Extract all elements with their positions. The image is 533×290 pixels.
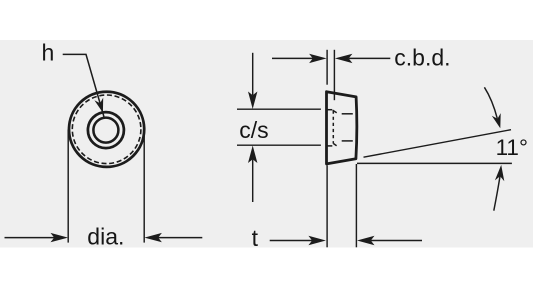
arrowhead arc lower (495, 165, 504, 181)
hole bore circle (93, 118, 118, 143)
arrowhead dia right (144, 233, 162, 242)
dimension line t left (270, 240, 313, 242)
arrowhead h leader (94, 98, 103, 113)
svg-text:h: h (42, 39, 55, 65)
hidden bore bottom dash (342, 140, 353, 142)
extension line c/s top (237, 108, 321, 110)
extension line dia right (143, 130, 145, 243)
extension line cbd left (326, 50, 328, 85)
arrowhead c/s bottom (248, 146, 257, 164)
hole countersink circle (88, 112, 124, 148)
svg-text:c/s: c/s (239, 117, 268, 143)
arrowhead dia left (51, 233, 69, 242)
11 deg slanted line (364, 130, 512, 158)
arrowhead c/s top (248, 92, 257, 110)
dimension line dia left (5, 237, 56, 239)
hidden bore centerline vertical dashed (332, 111, 334, 144)
hidden countersink dash top-left (327, 109, 332, 111)
dimension line cbd left (272, 57, 313, 59)
drawing background panel (0, 40, 533, 248)
arrowhead cbd right (335, 54, 353, 63)
extension line t left (326, 165, 328, 247)
hidden cone tick bottom (333, 144, 336, 146)
11 deg horizontal reference line (357, 162, 512, 164)
svg-text:c.b.d.: c.b.d. (394, 45, 450, 71)
dimension line dia right (158, 237, 202, 239)
arrow shaft c/s top (252, 53, 254, 95)
hidden cone tick top (333, 110, 337, 113)
outer circle (insert dia.) (69, 92, 144, 167)
extension line dia left (67, 130, 69, 243)
extension line t right (355, 164, 357, 247)
insert side-view outline (327, 92, 357, 164)
arrowhead arc upper (492, 113, 501, 128)
arrow shaft c/s bottom (252, 159, 254, 202)
arrowhead t right (357, 236, 375, 245)
svg-text:dia.: dia. (87, 223, 124, 249)
dimension line t right (371, 240, 422, 242)
svg-text:t: t (252, 225, 259, 251)
hidden bore top dash (342, 113, 353, 115)
extension line c/s bottom (237, 144, 321, 146)
leader line h (63, 54, 105, 118)
extension line cbd right (333, 50, 335, 100)
hidden countersink dash bottom-left (327, 145, 332, 147)
arc arrow lower 11 deg (494, 176, 500, 210)
dimension line cbd right (349, 57, 391, 59)
arrowhead t left (308, 236, 326, 245)
svg-text:11°: 11° (496, 135, 528, 160)
arrowhead cbd left (309, 54, 327, 63)
dashed circle (edge land) (72, 95, 141, 164)
arc arrow upper 11 deg (484, 87, 497, 118)
